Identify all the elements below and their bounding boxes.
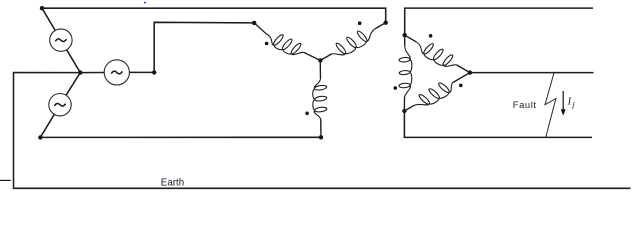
node wye bottom terminal [319,135,323,139]
wire delta bottom lead and bottom conductor [404,111,592,137]
polarity dot L4 [429,34,433,38]
node top-left junction [40,6,44,10]
winding wye phase-c coil L1 [267,34,321,60]
fault bolt [545,72,556,137]
wire common to earth-drop, earth-drop vertical and earth bus [14,73,631,189]
svg-text:Earth: Earth [161,177,184,188]
wire top phase a (node to wye UR terminal) [42,8,386,23]
winding delta coil L6 (B-C) [404,73,470,111]
svg-text:Fault: Fault [513,99,537,110]
wire phase c riser and run [154,22,254,72]
winding delta coil L5 (A-B) [399,35,412,111]
source G2 (lower-left ac generator) [49,94,71,116]
polarity dot L3 [305,112,309,116]
wire generator G1 lower lead [67,50,81,73]
source G3 (right ac generator) [104,60,129,85]
node wye UR terminal [384,21,388,25]
arrow fault current If [562,91,564,111]
node delta vertex C [468,70,472,74]
polarity dot L5 [394,86,398,90]
wire common to G3 [80,72,104,74]
wire wye UL terminal stub [254,23,267,34]
node wye centre [318,58,322,62]
artifact blue dot [144,2,146,4]
wire bottom phase b (to wye bottom terminal) [40,136,321,138]
source G1 (top ac generator) [50,29,72,51]
winding wye phase-b coil L3 [313,60,327,137]
wire G3 to node [129,71,154,73]
winding delta coil L4 (A-C) [405,35,470,72]
node right of G3 [152,70,156,74]
node delta vertex B [402,109,406,113]
wire generator G1 upper lead [42,8,55,30]
node wye UL terminal [252,21,256,25]
node delta vertex A [403,33,407,37]
winding wye phase-a coil L2 [320,23,385,61]
polarity dot L6 [459,84,463,88]
polarity dot L1 [265,42,269,46]
wire delta top lead and top conductor [405,8,593,35]
polarity dot L2 [358,21,362,25]
wire delta middle conductor [470,72,594,74]
wire common to G2 [66,73,80,96]
frame stub bottom-left [0,179,11,181]
node generator common [78,70,82,74]
node bottom-left junction [38,135,42,139]
svg-text:I: I [567,96,572,107]
wire G2 to bottom node [40,114,54,137]
